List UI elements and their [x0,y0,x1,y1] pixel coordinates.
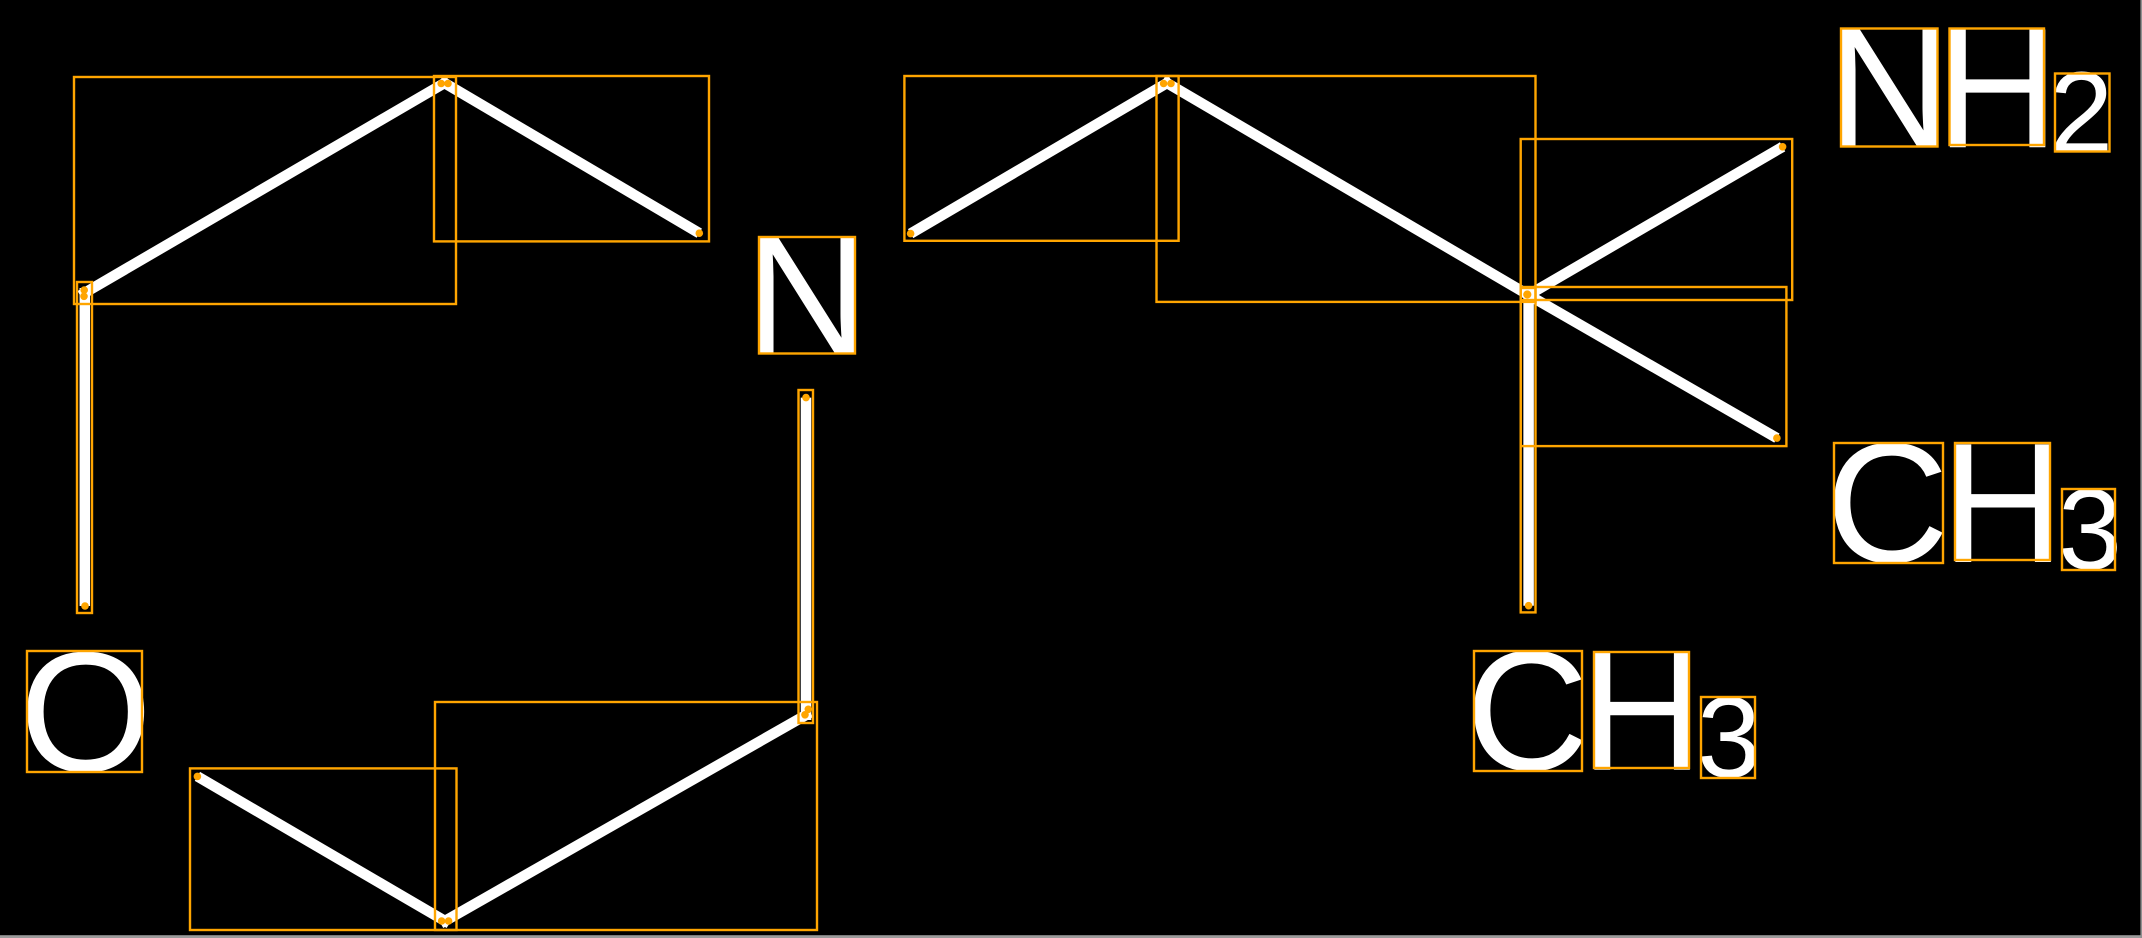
svg-text:3: 3 [2058,466,2122,594]
svg-text:O: O [19,617,152,808]
svg-text:2: 2 [2049,49,2113,177]
svg-text:H: H [1580,616,1704,807]
svg-text:C: C [1466,616,1590,807]
svg-text:C: C [1826,408,1950,599]
svg-text:H: H [1941,408,2065,599]
svg-text:N: N [745,201,869,392]
svg-text:3: 3 [1697,674,1761,802]
